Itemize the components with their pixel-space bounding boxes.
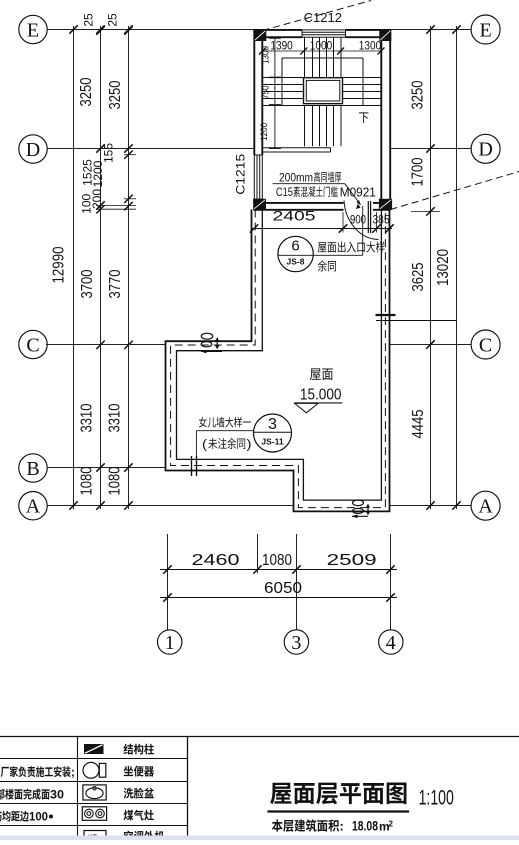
- svg-text:4: 4: [386, 632, 396, 654]
- svg-text:2: 2: [389, 820, 394, 829]
- svg-text:3310: 3310: [107, 403, 124, 432]
- svg-text:1700: 1700: [410, 157, 427, 186]
- svg-text::: :: [340, 819, 344, 834]
- svg-text:200mm: 200mm: [279, 172, 313, 184]
- svg-text:1200: 1200: [91, 160, 105, 187]
- svg-text:D: D: [26, 139, 40, 161]
- svg-text:3: 3: [268, 416, 277, 433]
- svg-text:1:100: 1:100: [419, 786, 454, 809]
- svg-text:12990: 12990: [51, 246, 68, 283]
- svg-text:A: A: [26, 496, 41, 518]
- svg-text:13020: 13020: [435, 249, 452, 286]
- svg-text:1080: 1080: [79, 466, 96, 495]
- svg-text:3700: 3700: [79, 269, 96, 298]
- svg-text:M0921: M0921: [340, 185, 376, 200]
- svg-text:4445: 4445: [410, 409, 427, 438]
- svg-text:15.000: 15.000: [300, 386, 342, 403]
- svg-text:2509: 2509: [327, 552, 377, 569]
- svg-text:A: A: [478, 496, 493, 518]
- svg-text:C1212: C1212: [304, 10, 342, 25]
- svg-text:900: 900: [350, 212, 366, 226]
- svg-text:6050: 6050: [264, 580, 302, 597]
- svg-text:): ): [247, 437, 252, 452]
- svg-text:1300: 1300: [359, 38, 382, 52]
- svg-text:;: ;: [71, 767, 75, 779]
- svg-text:1200: 1200: [259, 123, 270, 141]
- svg-text:25: 25: [106, 13, 120, 27]
- svg-text:1390: 1390: [270, 38, 293, 52]
- svg-text:200: 200: [90, 189, 104, 209]
- svg-text:3625: 3625: [410, 262, 427, 291]
- svg-text:3250: 3250: [410, 80, 427, 109]
- svg-text:30: 30: [50, 788, 64, 802]
- svg-text:3310: 3310: [79, 403, 96, 432]
- svg-text:750: 750: [261, 86, 272, 100]
- svg-text:100: 100: [29, 810, 48, 824]
- svg-text:6: 6: [291, 238, 299, 255]
- svg-text:18.08: 18.08: [352, 819, 378, 834]
- svg-text:JS-11: JS-11: [261, 437, 283, 447]
- svg-text:25: 25: [81, 13, 95, 27]
- svg-text:1080: 1080: [262, 552, 292, 569]
- svg-text:E: E: [27, 19, 39, 41]
- svg-text:(: (: [202, 437, 208, 452]
- svg-text:C15: C15: [276, 187, 293, 199]
- svg-text:B: B: [26, 458, 39, 480]
- svg-text:C1215: C1215: [234, 153, 248, 194]
- svg-text:155: 155: [102, 143, 116, 163]
- svg-text:2460: 2460: [192, 552, 240, 569]
- svg-text:C: C: [26, 334, 39, 356]
- svg-text:3250: 3250: [78, 77, 95, 106]
- svg-text:E: E: [479, 19, 491, 41]
- svg-text:D: D: [478, 139, 492, 161]
- svg-text:1: 1: [165, 632, 175, 654]
- svg-text:3: 3: [291, 632, 301, 654]
- svg-text:3770: 3770: [107, 269, 124, 298]
- svg-text:3250: 3250: [107, 80, 124, 109]
- svg-text:JS-8: JS-8: [287, 257, 305, 267]
- svg-text:2405: 2405: [273, 209, 316, 224]
- svg-text:1000: 1000: [310, 38, 333, 52]
- svg-text:1080: 1080: [107, 466, 124, 495]
- svg-text:C: C: [479, 334, 492, 356]
